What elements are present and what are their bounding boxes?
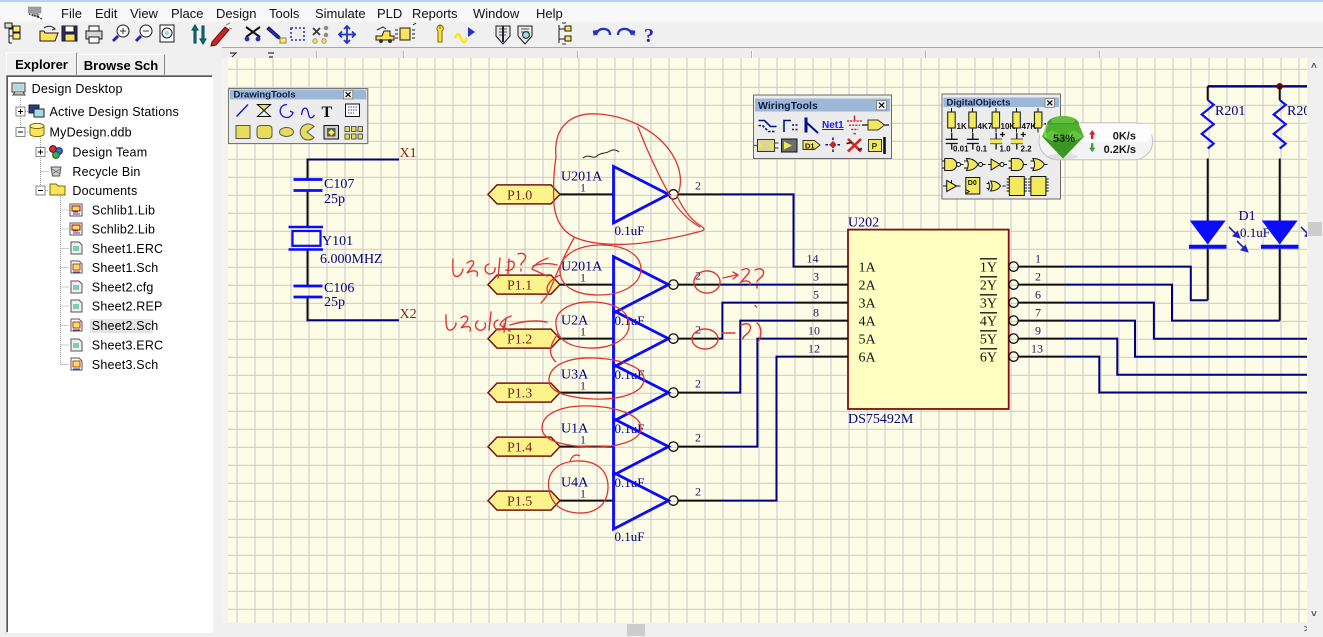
shield 1 [496, 26, 510, 44]
svg-text:8: 8 [813, 306, 819, 320]
diode D1 labels [1239, 209, 1270, 240]
partially visible strip above canvas [222, 47, 1323, 60]
value label 0.1uF (inv3) [615, 367, 645, 382]
IC U202 part name DS75492M [848, 412, 914, 427]
svg-text:5: 5 [813, 288, 819, 302]
wire R202 to D2 [1279, 159, 1281, 221]
svg-text:P1.3: P1.3 [507, 387, 532, 402]
up down arrows [192, 25, 206, 44]
port P1.5 [488, 491, 560, 510]
svg-text:3A: 3A [859, 297, 877, 312]
svg-text:25p: 25p [324, 192, 345, 207]
svg-text:1: 1 [580, 325, 586, 339]
pin 5 stub (3A) [795, 302, 848, 304]
annotation red balloon around inverter 1 [541, 114, 704, 303]
pin 10 stub (5A) [795, 338, 848, 340]
svg-text:Net1: Net1 [822, 120, 844, 131]
vertical scrollbar [1307, 58, 1323, 623]
desktop [12, 83, 25, 95]
pin 3 stub (2A) [795, 284, 849, 286]
svg-text:P: P [872, 141, 878, 151]
svg-text:4A: 4A [859, 315, 877, 330]
wire inv1 output [678, 194, 794, 266]
port P1.4 [488, 437, 560, 456]
svg-text:Active Design Stations: Active Design Stations [50, 105, 179, 119]
pin number 8 [813, 306, 819, 320]
pin number 2 (inv4) [695, 377, 701, 391]
svg-text:Design Team: Design Team [72, 146, 147, 160]
value label 0.1uF (inv6) [615, 529, 645, 544]
annotation oval around U201A (row 2) [547, 245, 641, 295]
svg-text:X2: X2 [400, 307, 417, 322]
svg-text:1A: 1A [859, 261, 877, 276]
network speed pill overlay [1039, 123, 1153, 160]
svg-text:2: 2 [695, 431, 701, 445]
open folder [40, 26, 58, 41]
wire P1.2 to inverter 3 [560, 338, 614, 340]
red pen [211, 23, 232, 46]
svg-text:1: 1 [580, 433, 586, 447]
diode D1 (LED) [1189, 221, 1226, 301]
svg-text:Sheet3.ERC: Sheet3.ERC [92, 339, 163, 353]
annotation oval around U2A (row 3) [551, 302, 629, 362]
shield 2 [518, 26, 532, 44]
annotation handwriting U201A? (row 2) [453, 253, 557, 278]
annotation scrawl at inverter 2 output [694, 269, 764, 293]
svg-text:DrawingTools: DrawingTools [234, 90, 296, 101]
main toolbar [0, 22, 1323, 47]
svg-text:2A: 2A [859, 279, 877, 294]
pin 8 stub (4A) [795, 320, 848, 322]
MyDesign.ddb database [30, 123, 44, 136]
svg-text:X1: X1 [400, 146, 417, 161]
pin number 1 (inv6) [580, 487, 586, 501]
output pin stubs [1018, 267, 1064, 357]
svg-text:MyDesign.ddb: MyDesign.ddb [50, 126, 132, 140]
pin number 2 (inv6) [695, 485, 701, 499]
port P1.2 [488, 329, 560, 348]
op-amp U2A designator [561, 314, 589, 329]
svg-text:2: 2 [1035, 270, 1041, 284]
svg-text:4K7: 4K7 [978, 122, 993, 131]
svg-text:6Y: 6Y [980, 351, 997, 366]
svg-text:2: 2 [695, 178, 701, 192]
op-amp U201A designator 1 [561, 169, 603, 184]
svg-text:P1.5: P1.5 [507, 495, 532, 510]
port P1.0 [488, 185, 560, 204]
labels [32, 82, 179, 372]
svg-text:2.2: 2.2 [1021, 145, 1033, 154]
capacitor C107 [294, 180, 323, 191]
crystal Y101 [289, 227, 324, 250]
documents folder [50, 184, 65, 195]
svg-text:10K: 10K [1001, 122, 1016, 131]
crystal Y101 labels [320, 234, 383, 267]
svg-text:10: 10 [808, 324, 820, 338]
port P1.1 [488, 275, 560, 294]
svg-text:R201: R201 [1215, 104, 1245, 119]
svg-text:1: 1 [580, 271, 586, 285]
op-amp U201A inverter 1 [614, 166, 679, 223]
netlist icon [559, 23, 571, 44]
diode D2 (LED) [1261, 221, 1298, 321]
toolbox truck [376, 27, 394, 43]
svg-text:P1.0: P1.0 [507, 188, 532, 203]
svg-text:P1.2: P1.2 [507, 333, 532, 348]
gates row [942, 159, 1048, 171]
junction node on rail [1276, 83, 1283, 90]
svg-text:2: 2 [695, 377, 701, 391]
svg-text:6A: 6A [859, 351, 877, 366]
menu bar [0, 0, 1323, 24]
svg-text:WiringTools: WiringTools [758, 100, 818, 112]
erc icon [71, 242, 82, 254]
pin number 1 (inv2) [580, 271, 586, 285]
dashed rect [291, 28, 304, 40]
svg-text:1: 1 [580, 487, 586, 501]
svg-text:Sheet2.REP: Sheet2.REP [92, 300, 163, 314]
WiringTools floating toolbar [754, 95, 892, 159]
svg-text:Recycle Bin: Recycle Bin [72, 165, 140, 179]
chip wires [395, 23, 416, 40]
capacitor C106 [294, 286, 323, 297]
svg-text:Schlib1.Lib: Schlib1.Lib [92, 204, 155, 218]
svg-text:13: 13 [1031, 342, 1043, 356]
highlight [90, 319, 153, 333]
print [86, 26, 102, 43]
svg-text:DigitalObjects: DigitalObjects [947, 97, 1011, 108]
wire 4Y to right edge [1065, 321, 1308, 357]
svg-text:Sheet3.Sch: Sheet3.Sch [92, 358, 159, 372]
bottom row [943, 177, 1049, 196]
wire P1.4 to inverter 5 [560, 446, 614, 448]
blue pen [267, 27, 286, 43]
node X1 net label [400, 146, 417, 161]
capacitor C106 labels [324, 281, 354, 310]
wire rail to R201 [1207, 86, 1209, 100]
resistor R202 [1274, 100, 1318, 148]
pin number 2 (inv3) [695, 323, 701, 337]
svg-text:Sheet1.Sch: Sheet1.Sch [92, 261, 159, 275]
wire net X2 [308, 319, 400, 321]
green gem badge 53% [1042, 116, 1084, 159]
annotation oval around U3A (row 4) [549, 358, 644, 399]
pin number 2 (inv2) [695, 269, 701, 283]
annotation black squiggle above U201A [583, 150, 619, 158]
diode D1 LED arrows [1229, 227, 1248, 252]
diode D2 LED arrows [1301, 227, 1318, 250]
cutter [245, 27, 261, 41]
svg-text:53%: 53% [1053, 133, 1075, 145]
icons [12, 83, 82, 370]
svg-text:D0: D0 [968, 180, 977, 187]
svg-text:0.2K/s: 0.2K/s [1104, 144, 1136, 156]
svg-text:0.1uF: 0.1uF [615, 475, 645, 490]
svg-text:T: T [322, 104, 333, 121]
IC U202 body [848, 230, 1009, 409]
svg-text:6: 6 [1035, 288, 1041, 302]
svg-text:D1: D1 [805, 142, 815, 151]
output pin numbers 1,2,6,7,9,13 [1031, 252, 1043, 356]
svg-text:Schlib2.Lib: Schlib2.Lib [92, 223, 155, 237]
wire P1.0 to U201A pin 1 [560, 193, 614, 195]
zoom doc [160, 25, 174, 42]
svg-text:Y101: Y101 [322, 234, 353, 249]
svg-text:0.1uF: 0.1uF [615, 223, 645, 238]
svg-text:3Y: 3Y [980, 297, 997, 312]
annotation scrawl at inverter 3 output [692, 306, 761, 350]
svg-text:P1.4: P1.4 [507, 441, 532, 456]
op-amp U201A designator 2 [561, 260, 603, 275]
save [62, 26, 77, 41]
expand boxes [16, 107, 45, 195]
op-amp U2A inverter 3 [614, 311, 679, 368]
wire 2Y to LED D2 [1065, 285, 1280, 321]
pin number 1 (inv3) [580, 325, 586, 339]
svg-text:3: 3 [813, 270, 819, 284]
svg-text:0.1uF: 0.1uF [1240, 225, 1270, 240]
svg-text:1: 1 [1035, 252, 1041, 266]
svg-text:0.1uF: 0.1uF [615, 367, 645, 382]
svg-text:5Y: 5Y [980, 333, 997, 348]
svg-text:47K: 47K [1022, 122, 1037, 131]
crossed arrows with dots [313, 26, 328, 43]
wire inv5 output to chip pin 10 [678, 339, 795, 447]
svg-text:25p: 25p [324, 295, 345, 310]
DrawingTools floating toolbar [228, 89, 367, 144]
zoom in [113, 25, 129, 41]
resistor row [948, 108, 1042, 133]
zoom out [136, 25, 152, 41]
svg-text:0K/s: 0K/s [1113, 130, 1136, 142]
pin names 1A-6A [859, 261, 877, 366]
svg-text:14: 14 [807, 252, 819, 266]
svg-text:Sheet2.Sch: Sheet2.Sch [92, 319, 159, 333]
wire inv2 output to chip pin 3 [678, 284, 794, 286]
wire rail to R202 [1279, 86, 1281, 100]
svg-text:0.1uF: 0.1uF [615, 529, 645, 544]
value label 0.1uF (inv5) [615, 475, 645, 490]
lib icons [70, 204, 82, 216]
pin number 3 [813, 270, 819, 284]
svg-text:R202: R202 [1287, 104, 1307, 119]
wire inv4 output to chip pin 8 [678, 321, 795, 393]
pin number 12 [808, 342, 820, 356]
undo [590, 27, 610, 36]
svg-text:7: 7 [1035, 306, 1041, 320]
capacitor row [946, 132, 1026, 150]
wire 5Y to right edge [1065, 339, 1308, 375]
annotation oval around U1A (row 5) [542, 406, 641, 447]
svg-text:P1.1: P1.1 [507, 279, 532, 294]
annotation handwriting U2016 (row 3) [446, 312, 547, 332]
svg-text:0.1: 0.1 [976, 145, 988, 154]
IC U202 designator [848, 216, 879, 231]
op-amp U3A inverter 4 [614, 365, 679, 422]
pin number 14 [807, 252, 819, 266]
pin 12 stub (6A) [795, 356, 848, 358]
svg-text:C106: C106 [324, 281, 354, 296]
op-amp U3A designator [561, 368, 589, 383]
pin number 10 [808, 324, 820, 338]
DigitalObjects floating toolbar [942, 94, 1061, 199]
op-amp U201A inverter 2 [614, 257, 679, 314]
pin names 1Y-6Y with overbars [980, 261, 997, 366]
svg-text:1: 1 [580, 379, 586, 393]
capacitor C107 labels [324, 177, 354, 207]
power rail wire (top right) [1208, 85, 1308, 87]
annotation oval around U4A (row 6) [549, 455, 608, 513]
node X2 net label [400, 307, 417, 322]
active stations [29, 105, 44, 117]
svg-text:?: ? [644, 25, 654, 47]
svg-text:D1: D1 [1239, 209, 1256, 224]
pin number 2 (inv1) [695, 178, 701, 192]
horizontal scrollbar [222, 623, 1307, 637]
op-amp U4A designator [561, 476, 589, 491]
svg-text:Design Desktop: Design Desktop [32, 82, 123, 96]
output bubbles 1Y-6Y [1009, 262, 1018, 361]
sch icon [71, 261, 82, 273]
svg-text:C107: C107 [324, 177, 354, 192]
svg-text:1: 1 [580, 180, 586, 194]
resistor R201 [1202, 100, 1246, 148]
wire P1.3 to inverter 4 [560, 392, 614, 394]
op-amp U1A inverter 5 [614, 419, 679, 476]
wire 6Y to right edge [1065, 357, 1308, 393]
tree icon [5, 23, 20, 43]
left explorer panel [0, 47, 217, 637]
wire R201 to D1 [1207, 159, 1209, 221]
wire inv6 output to chip pin 12 [678, 357, 795, 501]
pin number 1 (inv5) [580, 433, 586, 447]
wrench [437, 25, 443, 42]
pin 14 stub (1A) [795, 266, 849, 268]
pin number 1 (inv1) [580, 180, 586, 194]
wire 1Y to LED D1 [1065, 267, 1208, 301]
sine sim [455, 27, 475, 42]
svg-text:5A: 5A [859, 333, 877, 348]
wire net X1 [308, 159, 400, 161]
svg-text:6.000MHZ: 6.000MHZ [320, 252, 383, 267]
svg-text:1.0: 1.0 [1000, 145, 1012, 154]
svg-text:DS75492M: DS75492M [848, 412, 914, 427]
pin number 1 (inv4) [580, 379, 586, 393]
pin number 5 [813, 288, 819, 302]
wire P1.1 to inverter 2 [560, 284, 614, 286]
schematic canvas [222, 58, 1307, 623]
svg-text:Sheet1.ERC: Sheet1.ERC [92, 242, 163, 256]
recycle bin [51, 167, 61, 176]
port P1.3 [488, 383, 560, 402]
wire inv3 output to chip pin 5 [678, 303, 795, 339]
design team [50, 146, 63, 159]
svg-text:2Y: 2Y [980, 279, 997, 294]
svg-text:12: 12 [808, 342, 820, 356]
svg-text:2: 2 [695, 485, 701, 499]
value label 0.1uF (inv2) [615, 313, 645, 328]
value label 0.1uF (inv4) [615, 421, 645, 436]
wire crystal vertical segments [307, 159, 309, 322]
svg-text:1K: 1K [957, 122, 967, 131]
svg-text:9: 9 [1035, 324, 1041, 338]
wire 3Y to right edge [1065, 303, 1308, 339]
wire P1.5 to inverter 6 [560, 500, 614, 502]
move cross [339, 26, 356, 43]
svg-text:U202: U202 [848, 216, 879, 231]
op-amp U4A inverter 6 [614, 473, 679, 529]
svg-text:0.01: 0.01 [953, 145, 969, 154]
redo [618, 27, 638, 36]
svg-text:Documents: Documents [72, 184, 137, 198]
op-amp U1A designator [561, 422, 589, 437]
svg-text:4Y: 4Y [980, 315, 997, 330]
svg-text:1Y: 1Y [980, 261, 997, 276]
pin number 2 (inv5) [695, 431, 701, 445]
svg-text:Sheet2.cfg: Sheet2.cfg [92, 281, 154, 295]
value label 0.1uF (inv1) [615, 223, 645, 238]
